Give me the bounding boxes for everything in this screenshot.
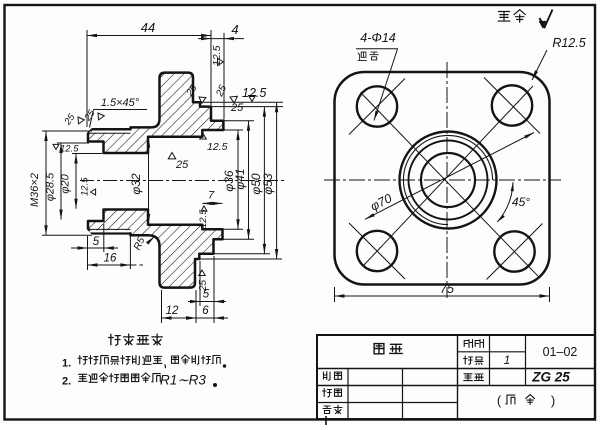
circle phi20	[421, 153, 475, 207]
svg-text:M36×2: M36×2	[29, 173, 41, 207]
finish marks cluster	[197, 94, 206, 103]
title block h-lines	[458, 351, 526, 353]
dim phi32	[148, 137, 150, 225]
svg-text:12: 12	[166, 305, 179, 317]
svg-text:7: 7	[208, 190, 215, 202]
dim phi70 oblique	[365, 133, 534, 220]
45 deg angle arc	[497, 182, 513, 222]
svg-text:25: 25	[230, 102, 244, 114]
finish 12.5 on left face	[91, 189, 96, 195]
bolt hole 2 phi14	[492, 85, 532, 125]
svg-text:R12.5: R12.5	[552, 36, 585, 50]
section top half metal (hatched)	[88, 73, 223, 153]
svg-text:R1∼R3: R1∼R3	[160, 373, 206, 388]
dim phi53	[193, 101, 283, 103]
bolt hole 1 phi14	[357, 86, 397, 126]
diagonal TL-BR	[361, 92, 539, 276]
svg-text:12.5: 12.5	[80, 177, 91, 196]
svg-text:01–02: 01–02	[543, 345, 578, 359]
dim 16	[88, 264, 131, 266]
finish 25 at phi32 bore	[168, 153, 176, 159]
label zhongliang (weight)	[464, 374, 472, 381]
center circles: thread major phi36	[400, 132, 497, 229]
svg-text:φ53: φ53	[261, 173, 275, 195]
dim phi36	[223, 129, 244, 131]
svg-text:44: 44	[141, 20, 155, 35]
dim phi28.5	[57, 142, 89, 144]
label bili (scale)	[464, 340, 472, 348]
dim phi50	[211, 106, 283, 108]
dim 44	[87, 35, 211, 37]
R5 label	[148, 237, 155, 244]
finish 12.5 right bore bottom	[201, 206, 207, 211]
finish mark 12.5 on right face ext	[218, 59, 224, 66]
thread minor thin lines M36x2	[88, 132, 131, 134]
svg-text:2.: 2.	[62, 376, 71, 388]
section bottom half metal (hatched)	[88, 210, 223, 288]
svg-text:75: 75	[440, 282, 454, 296]
dim 6	[196, 317, 214, 319]
svg-text:φ28.5: φ28.5	[45, 172, 57, 201]
svg-text:4-Φ14: 4-Φ14	[360, 31, 396, 45]
svg-text:): )	[551, 393, 555, 408]
qiyu (rest) roughness note	[498, 12, 510, 22]
dim 7	[202, 202, 222, 204]
diagonal BL-TR	[363, 86, 533, 266]
bolt hole 3 phi14	[357, 231, 397, 271]
finish 12.5 at right bore top	[200, 134, 207, 140]
svg-text:1.: 1.	[62, 358, 71, 370]
right view centerlines	[446, 62, 448, 298]
svg-text:12.5: 12.5	[60, 144, 79, 155]
dim phi20	[72, 153, 102, 155]
svg-text:45°: 45°	[512, 195, 530, 209]
svg-text:12.5: 12.5	[211, 45, 223, 66]
finish 12.5 at counterbore	[53, 144, 59, 149]
svg-text:5: 5	[93, 236, 100, 248]
ext lines 12,6,5	[161, 290, 163, 323]
finish marks 25 at left chamfer	[75, 115, 84, 124]
finish 25 bottom right	[199, 270, 206, 276]
ext lines 5,16	[87, 236, 89, 270]
svg-text:12.5: 12.5	[198, 209, 209, 228]
svg-text:16: 16	[104, 253, 117, 265]
svg-text:φ32: φ32	[129, 173, 143, 195]
label shenhe (checked)	[323, 406, 331, 414]
dim 5 right	[188, 301, 226, 303]
label miaotu (traced)	[323, 389, 332, 398]
svg-text:1: 1	[504, 353, 511, 367]
dim 5 left	[71, 247, 88, 249]
thread relief slivers	[90, 131, 130, 133]
svg-text:(: (	[497, 393, 502, 408]
heading jishuyaoqiu	[109, 334, 121, 345]
svg-text:ZG 25: ZG 25	[531, 370, 570, 385]
label zhitu (drawn)	[324, 372, 331, 381]
centering mark bottom	[325, 416, 327, 425]
flange square R12.5	[335, 72, 550, 285]
circle phi28.5	[409, 141, 488, 220]
svg-text:6: 6	[202, 305, 209, 317]
bolt hole 4 phi14	[494, 231, 534, 271]
title: fagai (valve bonnet)	[374, 344, 384, 354]
svg-text:4: 4	[231, 22, 238, 37]
svg-text:φ20: φ20	[60, 173, 72, 193]
ext lines for 44 and 4	[86, 30, 88, 127]
title block outer	[317, 335, 595, 419]
dim 4	[198, 38, 224, 40]
dim M36x2	[42, 130, 92, 132]
centerline left view	[80, 180, 287, 182]
dim 12	[162, 317, 197, 319]
dim 75	[334, 287, 336, 302]
svg-text:1.5×45°: 1.5×45°	[101, 97, 140, 109]
svg-text:25: 25	[198, 279, 209, 292]
title block v-lines	[347, 369, 349, 420]
dim phi41	[223, 120, 254, 122]
svg-text:25: 25	[175, 159, 189, 171]
chamfer note 1.5x45	[94, 109, 148, 111]
svg-text:φ41: φ41	[233, 168, 247, 189]
svg-text:12.5: 12.5	[207, 141, 228, 153]
label jianshu (qty)	[464, 356, 473, 365]
thread minor 3/4 thin circle	[403, 135, 492, 224]
